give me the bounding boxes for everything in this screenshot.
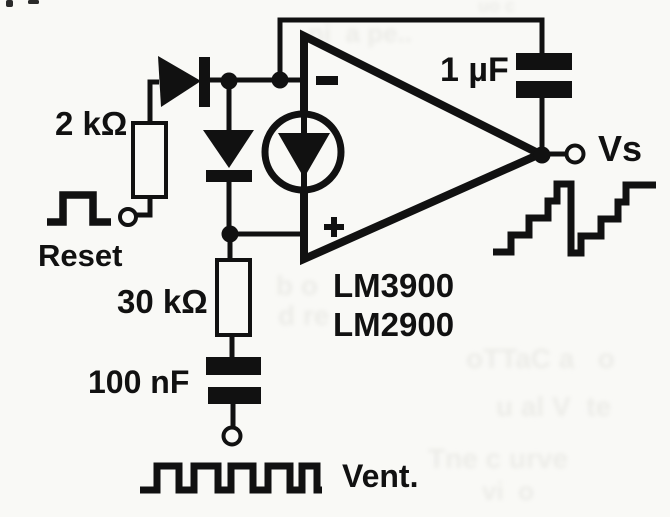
- wire C2 to input terminal: [231, 403, 236, 428]
- svg-text:d re: d re: [278, 300, 329, 331]
- wire D2 cathode to node: [227, 180, 232, 236]
- wire diode branch vertical: [227, 81, 232, 132]
- wire node to resistor R2: [228, 234, 233, 260]
- terminal Reset: [120, 209, 136, 225]
- resistor R1 2k: [133, 123, 166, 197]
- svg-text:uo c: uo c: [478, 0, 515, 16]
- svg-text:2 kΩ: 2 kΩ: [55, 105, 127, 142]
- capacitor C2 100nF: [206, 357, 261, 375]
- svg-text:u al V te: u al V te: [496, 391, 611, 422]
- svg-text:Tne c urve: Tne c urve: [428, 443, 568, 474]
- svg-text:LM2900: LM2900: [333, 306, 454, 343]
- svg-text:30 kΩ: 30 kΩ: [117, 283, 208, 320]
- wire R2 to capacitor C2: [230, 334, 235, 358]
- wire diode D1 anode to resistor R1: [150, 82, 159, 123]
- diode D2: [203, 130, 254, 168]
- node junction feedback riser: [272, 72, 289, 89]
- op-amp plus symbol: [324, 217, 344, 237]
- wire R1 to Reset terminal: [137, 196, 150, 215]
- waveform staircase Vs: [493, 184, 656, 253]
- svg-text:b o: b o: [276, 270, 318, 301]
- terminal Vs: [567, 146, 584, 163]
- wire non-inverting input: [229, 232, 304, 237]
- current source (Norton mirror): [265, 114, 341, 190]
- waveform reset pulse: [47, 195, 111, 222]
- svg-text:1 µF: 1 µF: [440, 51, 509, 89]
- svg-text:Vent.: Vent.: [342, 458, 418, 494]
- svg-text:100 nF: 100 nF: [88, 364, 189, 400]
- node junction non-inverting: [222, 226, 239, 243]
- waveform square wave Vent: [140, 466, 322, 490]
- op-amp minus symbol: [316, 76, 338, 85]
- svg-text:LM3900: LM3900: [333, 267, 454, 304]
- diode D1: [158, 56, 201, 107]
- node output: [534, 147, 551, 164]
- terminal Vent: [224, 428, 241, 445]
- wire capacitor C1 to output node: [540, 96, 545, 155]
- svg-text:vi o: vi o: [482, 476, 534, 506]
- resistor R2 30k: [217, 260, 250, 335]
- svg-text:oTTaC a o: oTTaC a o: [466, 343, 615, 374]
- wire feedback top: [280, 20, 542, 80]
- svg-text:Vs: Vs: [598, 128, 642, 169]
- wire output node to Vs terminal: [545, 152, 566, 157]
- svg-text:Reset: Reset: [38, 238, 122, 273]
- node junction diode/feedback: [221, 73, 238, 90]
- capacitor C1 1uF: [516, 53, 572, 70]
- wire inverting input: [208, 78, 304, 83]
- op-amp U1 LM3900: [304, 36, 540, 259]
